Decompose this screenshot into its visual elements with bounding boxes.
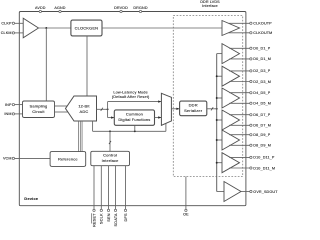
pin RESET [91,166,96,227]
LVDS clock output buffer [222,21,240,36]
pin OVR_SDOUT [250,190,278,194]
LVDS buffer D6_D7 [216,110,240,130]
power pin AGND [54,6,65,12]
wire CLKOUTM [228,32,249,34]
pin CLKOUTP [250,22,272,26]
svg-text:D6_D7_M: D6_D7_M [253,124,271,128]
svg-text:Serializer: Serializer [184,108,203,113]
svg-text:D0_D1_M: D0_D1_M [253,57,271,61]
pin D6_D7_M [250,124,271,128]
svg-text:Reference: Reference [58,157,78,162]
svg-text:CLOCKGEN: CLOCKGEN [75,25,99,30]
wire OVR_SDOUT [241,191,250,193]
DDR LVDS Interface dashed box [173,16,242,177]
wire ADC to reference x3 [79,121,83,152]
svg-text:D8_D9_M: D8_D9_M [253,144,271,148]
svg-text:Circuit: Circuit [32,109,45,114]
svg-text:INM: INM [4,112,11,116]
pin SEN [106,166,111,222]
svg-text:DRVDD: DRVDD [114,6,128,10]
svg-text:CLKM: CLKM [1,31,12,35]
svg-text:D4_D5_P: D4_D5_P [253,91,270,95]
svg-text:Low-Latency Mode: Low-Latency Mode [113,90,147,94]
wire CLKOUTP [229,22,250,24]
svg-text:SEN: SEN [106,213,111,221]
junction clock to sampling [45,27,47,29]
wire D8_D9_M [229,144,250,146]
pin D6_D7_P [250,113,271,117]
pin OE [183,177,189,217]
label Low-Latency Mode [112,90,150,99]
pin D10_D11_P [250,156,275,160]
wire D4_D5_M [229,102,250,104]
wire CLOCKGEN to output clock buffer [102,27,222,29]
LVDS buffer OVR [224,182,241,202]
svg-text:DDR: DDR [189,102,198,107]
block Reference [50,152,86,167]
wire sampling to ADC P [55,105,69,107]
mux output select [161,93,171,125]
wire serializer to LVDS bus [207,107,217,110]
wire D2_D3_P [229,70,250,72]
junction control interface tap [109,130,111,132]
pin CLKM [1,31,23,35]
svg-text:VCM: VCM [3,157,12,161]
pin DFS [123,166,128,222]
pin D8_D9_P [250,133,271,137]
pin CLKOUTM [250,31,273,35]
svg-text:AGND: AGND [54,6,65,10]
block Control Interface [91,151,130,165]
pin INP [5,103,23,107]
junction serializer bus [216,108,218,110]
pin INM [4,112,22,116]
svg-text:RESET: RESET [91,213,96,227]
svg-text:12-Bit: 12-Bit [78,103,90,108]
block Sampling Circuit [23,101,55,118]
svg-text:Digital Functions: Digital Functions [118,117,150,122]
block CLOCKGEN [71,20,102,36]
wire control interface up [109,131,111,151]
svg-text:Device: Device [24,196,38,201]
wire clock to sampling circuit [45,28,47,101]
wire D0_D1_M [229,58,250,60]
LVDS bus vertical [216,54,218,192]
svg-text:AVDD: AVDD [35,6,46,10]
wire ADC status down [93,121,166,131]
pin D10_D11_M [250,166,275,170]
svg-text:ADC: ADC [80,109,89,114]
pin D4_D5_M [250,102,271,106]
pin D0_D1_P [250,47,271,51]
svg-text:Common: Common [126,112,143,117]
svg-text:D10_D11_M: D10_D11_M [253,166,275,170]
LVDS buffer D10_D11 [216,153,240,173]
pin D0_D1_M [250,57,271,61]
device outline [19,12,246,206]
svg-text:DFS: DFS [123,213,128,221]
svg-text:SDATA: SDATA [113,213,118,226]
wire CLOCKGEN to ADC [86,36,88,96]
svg-text:D8_D9_P: D8_D9_P [253,133,270,137]
block Common Digital Functions [114,110,154,125]
svg-text:Interface: Interface [102,158,120,163]
wire bus to OVR buffer [217,191,224,193]
svg-text:CLKOUTM: CLKOUTM [253,31,272,35]
power pin AVDD [35,6,46,12]
wire clock buffer to CLOCKGEN [39,27,71,29]
LVDS buffer D2_D3 [216,66,240,86]
svg-text:(Default After Reset): (Default After Reset) [112,95,150,99]
label Device [24,196,38,201]
svg-text:D0_D1_P: D0_D1_P [253,47,270,51]
wire low-latency bypass to mux [108,100,162,109]
svg-text:INP: INP [5,103,12,107]
svg-text:OE: OE [183,213,189,217]
junction common functions tap [134,130,136,132]
svg-text:Sampling: Sampling [30,103,48,108]
power pin DRVDD [114,6,128,12]
svg-text:CLKOUTP: CLKOUTP [253,22,272,26]
wire D6_D7_P [229,114,250,116]
wire D2_D3_M [229,81,250,83]
wire D8_D9_P [229,134,250,136]
svg-text:Control: Control [103,153,117,158]
pin D2_D3_M [250,80,271,84]
pin D4_D5_P [250,91,271,95]
junction ADC out [107,108,109,110]
svg-text:Interface: Interface [202,4,218,8]
wire D10_D11_M [229,167,250,169]
pin CLKP [1,22,23,26]
svg-text:D2_D3_M: D2_D3_M [253,80,271,84]
wire D10_D11_P [229,156,250,158]
power pin DRGND [133,6,147,12]
wire sampling to ADC M [55,111,69,113]
wire D4_D5_P [229,92,250,94]
block DDR Serializer [180,101,207,116]
pin SDATA [113,166,118,227]
block 12-Bit ADC [66,96,97,121]
wire D0_D1_P [229,47,250,49]
svg-text:D10_D11_P: D10_D11_P [253,156,275,160]
pin VCM [3,157,50,161]
svg-text:D2_D3_P: D2_D3_P [253,69,270,73]
svg-text:SCLK: SCLK [99,213,104,224]
LVDS buffer D4_D5 [216,88,240,108]
svg-text:CLKP: CLKP [1,22,12,26]
wire mux to DDR serializer [171,108,179,110]
svg-text:DRGND: DRGND [133,6,147,10]
pin D8_D9_M [250,144,271,148]
svg-text:D4_D5_M: D4_D5_M [253,102,271,106]
svg-text:D6_D7_P: D6_D7_P [253,113,270,117]
svg-text:OVR_SDOUT: OVR_SDOUT [253,190,278,194]
wire D6_D7_M [229,124,250,126]
wire ADC data out [97,108,108,111]
LVDS buffer D0_D1 [217,44,240,64]
wire common digital functions to mux [155,116,162,118]
wire ADC to common digital functions [108,109,115,119]
clock input buffer amp [23,18,38,38]
label DDR LVDS Interface [200,0,220,8]
wire common functions down [134,125,136,131]
pin D2_D3_P [250,69,271,73]
pin SCLK [99,166,104,224]
LVDS buffer D8_D9 [216,130,240,150]
